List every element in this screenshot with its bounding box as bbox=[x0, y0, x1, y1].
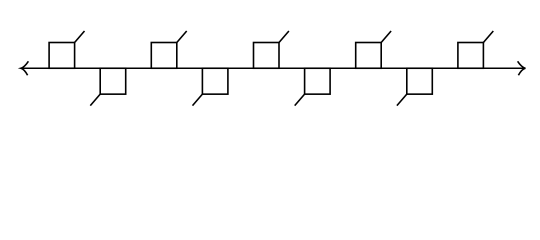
stub bond on S4 bbox=[193, 94, 203, 106]
stub bond on S1 bbox=[75, 31, 85, 43]
stub bond on S6 bbox=[295, 94, 305, 106]
wire main chain axis bbox=[21, 67, 525, 69]
square S3 (top) bbox=[151, 43, 177, 69]
left arrowhead bbox=[21, 61, 29, 75]
square S8 (bottom) bbox=[407, 68, 433, 94]
stub bond on S9 bbox=[483, 31, 493, 43]
stub bond on S8 bbox=[397, 94, 407, 106]
square S1 (top) bbox=[49, 43, 75, 69]
stub bond on S7 bbox=[381, 31, 391, 43]
square S5 (top) bbox=[254, 43, 280, 69]
square S6 (bottom) bbox=[305, 68, 331, 94]
stub bond on S2 bbox=[90, 94, 100, 106]
square S9 (top) bbox=[458, 43, 484, 69]
stub bond on S5 bbox=[279, 31, 289, 43]
stub bond on S3 bbox=[177, 31, 187, 43]
square S7 (top) bbox=[356, 43, 382, 69]
square S4 (bottom) bbox=[202, 68, 228, 94]
square S2 (bottom) bbox=[100, 68, 126, 94]
right arrowhead bbox=[518, 61, 526, 75]
